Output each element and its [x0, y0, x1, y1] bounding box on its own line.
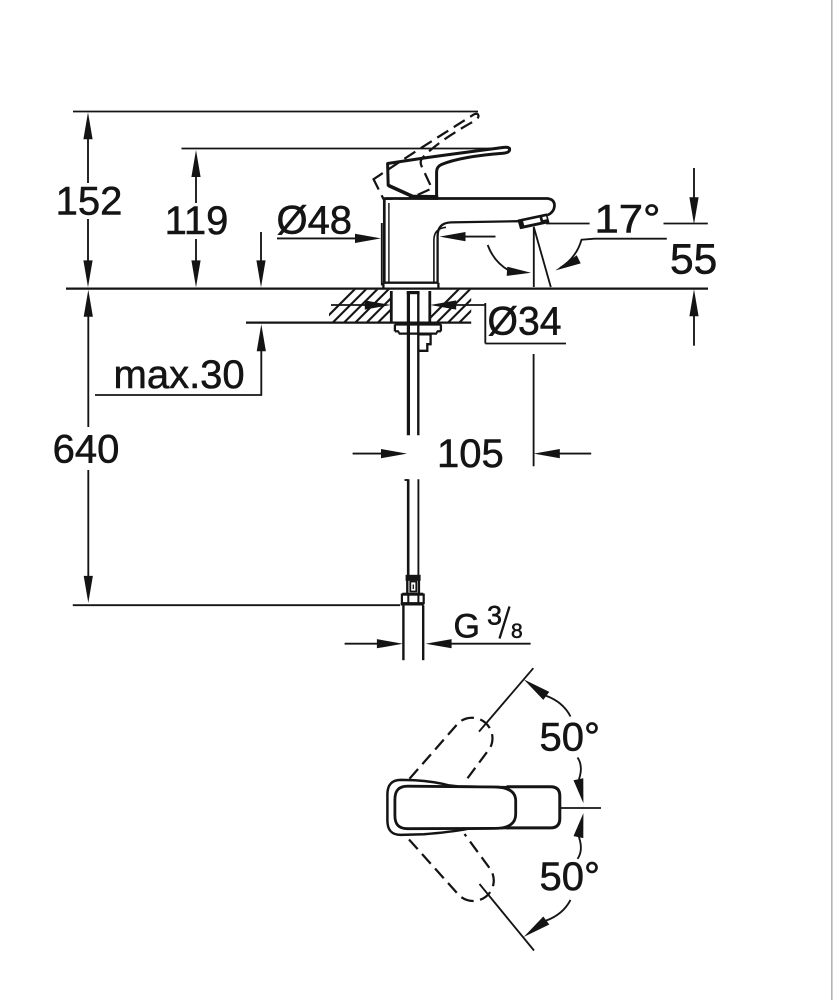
shank through deck [391, 291, 430, 435]
dim 119 [165, 150, 229, 287]
page edge line [831, 0, 833, 1000]
slanted stream line 17deg [534, 227, 551, 287]
upper 50 arc [546, 696, 571, 717]
dim 55 [664, 168, 718, 346]
G3/8 adapter: hose end block [406, 575, 421, 581]
vertical ref line from aerator [533, 228, 535, 287]
wire: 152 top reference line [73, 111, 478, 113]
aerator [518, 214, 548, 228]
dim 105 [353, 354, 592, 476]
base plate [383, 282, 438, 284]
svg-text:105: 105 [437, 432, 504, 476]
dim O34 [331, 300, 566, 344]
body right inner line [434, 227, 446, 282]
lower 50 ref slant line [480, 884, 535, 951]
svg-text:50°: 50° [540, 716, 601, 760]
handle lever solid [388, 147, 510, 196]
dim Ø48 [277, 199, 496, 286]
locknut under deck [395, 324, 441, 333]
hatch right block [424, 288, 494, 324]
body left outer edge [383, 199, 386, 283]
adapter nut [402, 593, 423, 596]
dashed handle raised -50 (lower) [409, 834, 494, 901]
svg-text:119: 119 [165, 199, 229, 243]
mounting deck [66, 288, 708, 324]
dashed handle raised +50 (upper) [410, 718, 493, 783]
body top edge and spout top with nose [384, 199, 554, 216]
svg-text:8: 8 [511, 620, 523, 643]
flexible hose lower section [401, 479, 424, 660]
upper 50 ref slant line [479, 668, 533, 731]
dim 152 [56, 112, 123, 287]
svg-text:Ø48: Ø48 [277, 199, 353, 243]
dim 17 deg [488, 198, 667, 288]
pop-up fitting steps right of tube [420, 334, 431, 350]
connection pipe [402, 606, 404, 661]
svg-text:17°: 17° [595, 198, 661, 242]
svg-text:G: G [454, 608, 480, 646]
svg-text:50°: 50° [540, 855, 601, 899]
adapter body [406, 580, 408, 593]
dim max.30 [95, 232, 266, 397]
svg-text:max.30: max.30 [114, 353, 245, 397]
svg-text:55: 55 [670, 237, 717, 284]
hub slant bold edge [389, 186, 413, 197]
centerline right of hub [561, 807, 602, 809]
deck top line [66, 287, 708, 289]
deck bottom line [246, 322, 471, 324]
dim 640 [53, 290, 400, 605]
handle lever dashed (raised) [367, 113, 498, 209]
lower 50 arc [546, 900, 571, 921]
svg-text:152: 152 [56, 180, 123, 224]
dim G3/8 [345, 601, 531, 649]
svg-text:3: 3 [487, 601, 502, 631]
svg-text:640: 640 [53, 428, 120, 472]
wire: 119 reference line [182, 148, 512, 150]
inner supply tube [407, 293, 410, 436]
handle outer cap (top view) [387, 780, 508, 835]
body right outer edge + spout underside [438, 221, 519, 283]
hub/body junction band [409, 195, 438, 200]
hatch left block [320, 288, 413, 324]
svg-text:Ø34: Ø34 [488, 300, 562, 344]
handle lever face (top view) [395, 786, 516, 829]
hub cap (top view) [508, 787, 560, 828]
body left inner line [388, 203, 390, 283]
faucet body [383, 199, 554, 289]
